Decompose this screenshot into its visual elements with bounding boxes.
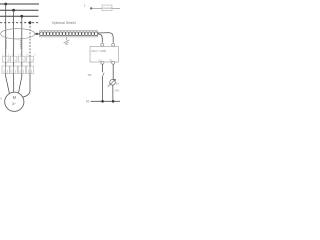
potentiometer arrow <box>108 79 116 86</box>
terminal bottom left <box>101 61 104 64</box>
wire T4 to contact <box>29 62 31 66</box>
rail PE dashed <box>0 22 40 24</box>
node L2 junction <box>12 9 15 12</box>
terminal block T2 <box>10 56 17 62</box>
terminal block T1 <box>2 56 9 62</box>
wire to motor 2 <box>13 73 15 92</box>
contact block K1 <box>2 66 34 73</box>
fuse F2 element <box>13 38 15 49</box>
node L3 junction <box>20 15 23 18</box>
shield tube bottom <box>40 36 98 38</box>
fuse F3 element <box>20 38 22 49</box>
chassis ground <box>64 37 70 45</box>
wire T3 to contact <box>21 62 23 66</box>
rail L1 <box>0 3 39 5</box>
svg-text:L: L <box>84 4 86 8</box>
wire PE drop dashed <box>29 23 31 57</box>
potentiometer R1 <box>110 80 116 86</box>
wire to motor 3 <box>18 73 21 93</box>
wire shield to 22 terminal <box>98 33 114 43</box>
svg-text:GBA / GBB: GBA / GBB <box>91 49 106 53</box>
contact inner marks <box>4 70 32 73</box>
rail L2 <box>0 9 39 11</box>
terminal block T3 <box>19 56 26 62</box>
terminal numbers <box>7 58 33 62</box>
wire line feed <box>91 7 120 9</box>
wire to motor ground <box>23 73 31 97</box>
wire Y1 to N <box>101 64 103 72</box>
cable bundle ellipse <box>1 29 35 39</box>
svg-text:TR-: TR- <box>87 73 92 77</box>
wire shield to Y1 terminal <box>98 34 103 43</box>
shield tube right cap <box>97 31 99 37</box>
svg-text:M: M <box>13 95 17 100</box>
terminal top right <box>112 43 115 46</box>
node L1 junction <box>4 3 7 6</box>
svg-text:50K: 50K <box>114 89 119 93</box>
rail L3 <box>0 15 39 17</box>
drive box GBA/GBB <box>90 47 119 63</box>
wire 22 to lamp <box>112 64 114 79</box>
wire T2 to contact <box>13 62 15 66</box>
shield tube left cap <box>38 31 40 37</box>
wire T1 to contact <box>5 62 7 66</box>
terminal bottom right <box>112 61 115 64</box>
fuse F1 element <box>5 38 7 49</box>
wire break switch <box>102 73 104 77</box>
svg-text:Optional Shield: Optional Shield <box>52 21 76 25</box>
node line terminal <box>90 7 92 9</box>
terminal block T4 <box>27 56 34 62</box>
node N-lamp junction <box>112 100 115 103</box>
shield tube top <box>40 30 98 32</box>
wire phase 3 drop <box>21 16 23 56</box>
svg-text:BK: BK <box>116 83 120 86</box>
terminal top left <box>101 43 104 46</box>
motor M1 <box>5 92 24 111</box>
wire phase 1 drop <box>5 4 7 56</box>
wire through contacts <box>6 56 30 73</box>
node PE junction <box>29 21 32 24</box>
shield braid chain <box>40 32 98 36</box>
terminal labels row <box>2 54 36 57</box>
wire lamp to N <box>112 85 114 101</box>
fuse F4 link <box>103 7 113 9</box>
wire phase 2 drop <box>13 10 15 56</box>
cable knot <box>35 33 39 35</box>
wire to motor 1 <box>6 73 10 93</box>
svg-text:3~: 3~ <box>12 102 17 106</box>
neutral line <box>91 100 121 102</box>
node N-Y1 junction <box>101 100 104 103</box>
fuse F4 <box>102 5 112 11</box>
